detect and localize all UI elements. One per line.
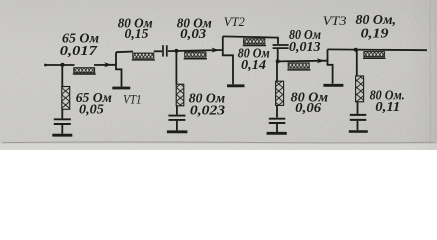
resistor RC6 series 80 Om 0,19 xyxy=(363,52,386,59)
wire xyxy=(276,105,278,117)
node J3 junction xyxy=(276,59,280,63)
ground bar 4 xyxy=(349,130,368,133)
svg-text:0,11: 0,11 xyxy=(375,100,400,115)
wire xyxy=(357,121,359,130)
wire stage3 run xyxy=(278,60,328,63)
capacitor C4 shunt xyxy=(168,116,185,120)
transistor VT1 xyxy=(112,52,130,88)
svg-text:VT3: VT3 xyxy=(323,13,348,28)
svg-text:0,017: 0,017 xyxy=(60,44,98,59)
transistor VT2 xyxy=(223,36,245,85)
bottom page rule xyxy=(2,141,434,144)
capacitor C2 coupling vertical xyxy=(273,45,289,61)
wire branch3 xyxy=(276,61,278,81)
svg-text:0,15: 0,15 xyxy=(125,27,149,42)
wire stage2 top (VT1 collector) xyxy=(116,51,133,54)
wire stage4 output xyxy=(328,48,428,51)
capacitor C5 shunt xyxy=(269,119,286,123)
wire xyxy=(61,125,63,134)
wire stage1 mid xyxy=(94,64,116,66)
wire xyxy=(276,124,278,132)
node input terminal xyxy=(44,64,47,67)
wire xyxy=(357,102,359,114)
wire branch1 xyxy=(61,65,63,88)
resistor R2 shunt 80 Om 0,023 xyxy=(176,84,184,106)
resistor RC4 series 80 Om 0,14 xyxy=(243,39,266,46)
wire xyxy=(176,106,178,115)
wire stage2 run xyxy=(168,50,223,51)
paper background xyxy=(0,0,437,150)
svg-text:0,023: 0,023 xyxy=(190,103,225,118)
arrow into VT1 xyxy=(104,62,112,67)
right edge streak xyxy=(430,0,432,150)
capacitor C6 shunt xyxy=(350,115,367,120)
svg-text:0,013: 0,013 xyxy=(289,40,321,55)
svg-text:VT2: VT2 xyxy=(224,14,245,29)
wire branch2 xyxy=(175,51,177,84)
node J1 junction xyxy=(61,63,65,67)
ground bar 1 xyxy=(52,134,72,137)
capacitor C3 shunt xyxy=(54,119,71,124)
lighter strip below rule xyxy=(0,144,437,150)
wire input stage1 xyxy=(45,64,75,66)
resistor RC3 series 80 Om 0,03 xyxy=(184,52,207,59)
wire stage3 top (VT2 collector) xyxy=(223,36,278,44)
svg-text:0,06: 0,06 xyxy=(295,101,321,116)
node J2 junction xyxy=(174,49,178,53)
svg-text:0,14: 0,14 xyxy=(241,58,266,73)
resistor RC5 series 80 Om 0,013 xyxy=(287,63,310,70)
transistor VT3 xyxy=(323,49,343,85)
wire branch4 xyxy=(356,50,358,76)
resistor RC1 series 65 Om 0,017 xyxy=(73,68,96,74)
svg-text:0,05: 0,05 xyxy=(79,102,104,117)
arrow into VT3 xyxy=(317,58,325,63)
ground bar 2 xyxy=(167,130,188,133)
arrow into VT2 xyxy=(212,48,220,53)
node J4 junction xyxy=(354,48,358,52)
resistor R3 shunt 80 Om 0,06 xyxy=(276,81,284,105)
resistor R4 shunt 80 Om 0,11 xyxy=(356,76,364,102)
resistor RC2 series 80 Om 0,15 xyxy=(132,53,155,60)
svg-text:0,03: 0,03 xyxy=(180,27,206,42)
svg-text:0,19: 0,19 xyxy=(361,27,389,42)
svg-text:VT1: VT1 xyxy=(123,91,141,106)
ground bar 3 xyxy=(267,132,287,135)
capacitor C1 coupling xyxy=(163,45,167,56)
resistor R1 shunt 65 Om 0,05 xyxy=(62,87,70,110)
wire xyxy=(61,109,63,118)
wire xyxy=(176,121,178,131)
